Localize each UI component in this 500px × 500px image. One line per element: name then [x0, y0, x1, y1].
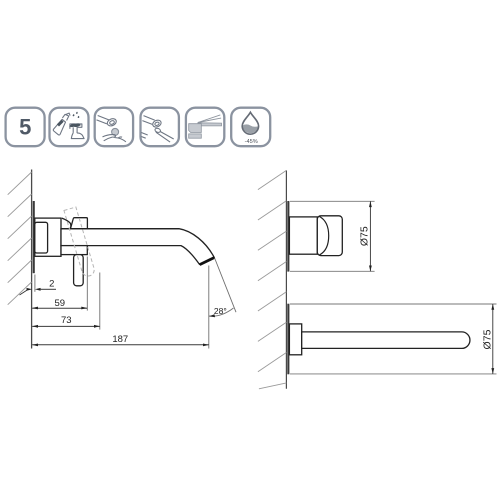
spout unit: escutcheon plate [287, 304, 289, 375]
cartridge block below pipe [61, 246, 87, 255]
hand [103, 135, 116, 138]
left wall hatching [8, 172, 32, 305]
right wall hatching [258, 170, 287, 388]
mixer body [289, 217, 317, 254]
svg-text:Ø75: Ø75 [482, 329, 494, 349]
handle base (solid) [71, 218, 88, 229]
icon box 1 (quantity 5) [6, 108, 45, 147]
icon box 3 (removable aerator) [95, 108, 133, 147]
dim 2: plate ext line [34, 275, 36, 292]
spout tip outlet [200, 258, 215, 265]
handle cone arc [319, 216, 329, 255]
left wall line [31, 170, 33, 349]
spout tube (front elev) [302, 332, 470, 349]
svg-text:2: 2 [49, 279, 54, 290]
dim 187 line and text [32, 334, 209, 347]
finger [154, 128, 161, 133]
icon box 5 (basin tap silhouette) [186, 108, 224, 147]
spray drops [73, 112, 80, 118]
spray bottle [53, 119, 65, 135]
svg-text:59: 59 [55, 298, 66, 309]
left escutcheon plate (side) [33, 201, 35, 273]
spout pipe (side) [61, 229, 214, 265]
dim 59: ext line [86, 257, 88, 311]
dim 2 arrows and text [20, 279, 57, 295]
dim Ø75 (spout) ext lines [290, 303, 497, 305]
mixer unit: escutcheon plate (front elev side) [287, 201, 289, 272]
escutcheon cover (side) [35, 222, 48, 253]
dim 59 line and text [32, 298, 87, 310]
lever cylinder (down position) [74, 255, 84, 286]
lever alternate position (dashed) [64, 207, 96, 278]
angle 28 slant line [215, 258, 236, 312]
svg-text:-45%: -45% [245, 139, 258, 145]
right wall line [285, 170, 287, 388]
pipe top line under handle [61, 228, 179, 230]
tap under cloth [70, 124, 82, 133]
angle 28 arc with arrow [209, 306, 234, 317]
dim Ø75 (mixer) line and text [359, 201, 372, 271]
svg-text:28°: 28° [214, 306, 227, 316]
svg-text:187: 187 [112, 334, 128, 345]
cartridge dome curve [62, 218, 71, 229]
icon box 2 (cleaning spray) [50, 108, 89, 147]
mixer handle [317, 216, 342, 256]
dim 73 line and text [32, 315, 100, 328]
icon box 6 (water saving drop -45%) [231, 108, 270, 147]
icon box 4 (touch aerator) [141, 108, 179, 147]
faucet body (side) [35, 218, 61, 256]
dim 73: ext line [99, 273, 101, 330]
spout connector block [289, 324, 301, 355]
dim Ø75 (mixer) ext lines [290, 200, 375, 202]
svg-text:73: 73 [61, 315, 72, 326]
wiping cloth [69, 123, 80, 127]
svg-text:Ø75: Ø75 [359, 226, 371, 246]
dim Ø75 (spout) line and text [482, 304, 495, 374]
svg-text:5: 5 [19, 115, 31, 140]
dim 187: ext line under spout tip [208, 266, 210, 349]
